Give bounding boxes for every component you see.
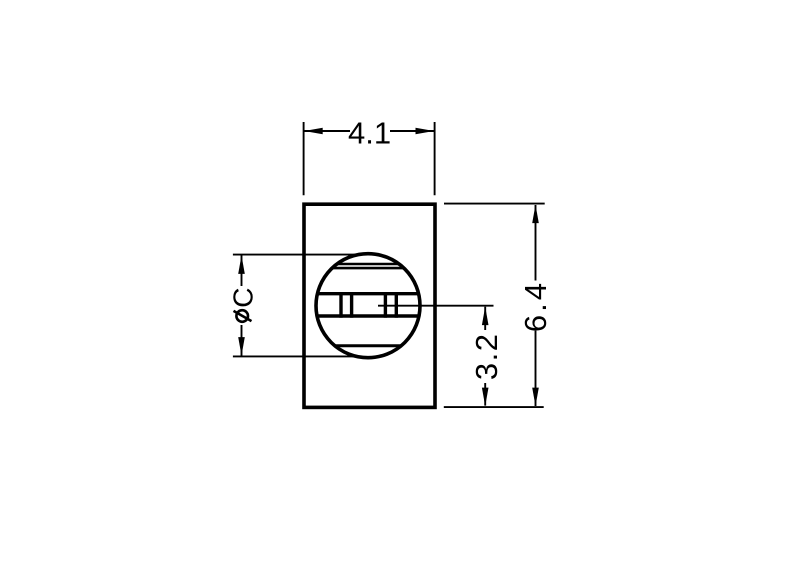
dimension circle-diameter bottom extension line	[233, 355, 359, 357]
dimension 4.1 left extension line	[303, 122, 305, 195]
svg-text:C: C	[227, 287, 258, 307]
dimension 6.4 line lower segment	[535, 331, 537, 406]
svg-text:4.1: 4.1	[348, 115, 391, 150]
electrode vertical line 1	[339, 292, 342, 318]
electrode band bottom line	[317, 314, 419, 317]
diameter symbol circle	[236, 310, 248, 322]
electrode vertical line 4	[395, 292, 398, 318]
dimension 3.2 line upper segment	[484, 307, 486, 330]
upper chord line 1	[337, 263, 399, 266]
diameter symbol slash	[234, 311, 252, 321]
electrode band top line	[317, 292, 418, 295]
dimension circle-diameter top extension line	[233, 254, 370, 256]
package outline rectangle	[304, 204, 435, 407]
arrowhead 6.4 up	[532, 205, 539, 224]
dimension 3.2 center leader line	[378, 305, 494, 307]
dimension 3.2 line lower segment	[484, 383, 486, 406]
electrode vertical line 2	[350, 292, 353, 318]
arrowhead 3.2 up	[482, 307, 489, 326]
arrowhead 4.1 left	[304, 128, 323, 135]
arrowhead diameter up	[238, 255, 245, 274]
electrode vertical line 3	[384, 292, 387, 318]
dimension 4.1 line right segment	[390, 130, 434, 132]
arrowhead 3.2 down	[482, 388, 489, 407]
dimension 4.1 line left segment	[304, 130, 350, 132]
dimension circle-diameter line lower segment	[241, 325, 243, 356]
dimension 4.1 right extension line	[434, 122, 436, 195]
dimension 6.4 top extension line	[444, 203, 545, 205]
LED lens circle	[316, 254, 420, 358]
svg-text:3.2: 3.2	[469, 332, 504, 380]
arrowhead 4.1 right	[416, 128, 435, 135]
shared bottom extension line	[444, 406, 544, 408]
svg-text:6.4: 6.4	[518, 280, 553, 332]
dimension 6.4 line upper segment	[535, 205, 537, 281]
dimension circle-diameter line upper segment	[241, 255, 243, 286]
arrowhead diameter down	[238, 337, 245, 356]
arrowhead 6.4 down	[532, 388, 539, 407]
upper chord line 2	[332, 267, 404, 270]
lower chord line	[335, 344, 401, 347]
